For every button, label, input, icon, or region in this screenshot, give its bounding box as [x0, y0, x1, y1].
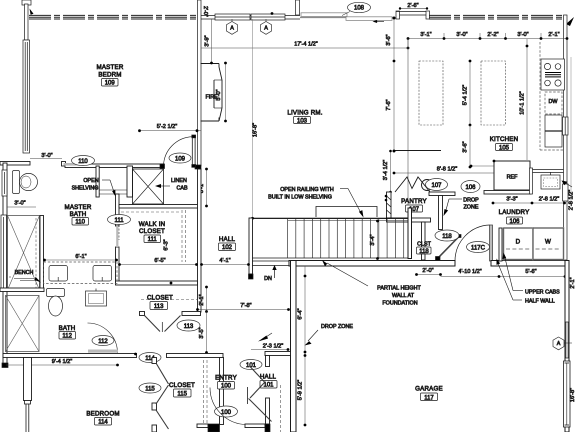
garage hall dims row: [417, 274, 441, 276]
svg-text:109: 109: [105, 81, 116, 87]
dim 3'-9" vertical left: [211, 19, 213, 63]
entry door arc: [210, 388, 247, 425]
svg-text:3'-0": 3'-0": [517, 32, 528, 38]
dim 3'-5": [206, 312, 208, 353]
svg-text:PARTIAL HEIGHT: PARTIAL HEIGHT: [377, 286, 421, 292]
dim 3'-6" / 7'-6" vertical kitchen-left: [393, 19, 395, 151]
kitchen west boundary line: [407, 39, 409, 211]
svg-text:CLOSET: CLOSET: [147, 295, 173, 302]
svg-text:16'-8": 16'-8": [253, 123, 259, 137]
bath112 toilet: [47, 289, 65, 297]
svg-text:OPEN RAILING WITH: OPEN RAILING WITH: [280, 187, 334, 193]
hall west wall: [198, 169, 202, 312]
svg-text:115: 115: [177, 392, 187, 398]
oval door tag 113: [177, 320, 200, 331]
svg-text:ZONE: ZONE: [464, 205, 479, 211]
slider arrow: [373, 20, 385, 23]
door 109 arc: [164, 137, 193, 166]
svg-text:DN: DN: [264, 276, 272, 282]
vanity sink 2: [93, 266, 112, 282]
svg-text:CAB: CAB: [176, 186, 187, 192]
entry south wall: [197, 424, 208, 428]
bath112 vanity: [86, 291, 107, 306]
svg-text:7'-8": 7'-8": [240, 303, 251, 309]
top-left wall marker box: [22, 0, 31, 5]
svg-text:113: 113: [154, 304, 164, 310]
door 117C leaf and arc: [490, 225, 493, 261]
svg-text:2'-0": 2'-0": [422, 268, 433, 274]
svg-text:DW: DW: [549, 99, 559, 105]
svg-text:112: 112: [98, 339, 108, 345]
svg-text:LINEN: LINEN: [171, 178, 187, 184]
closet 115 bifold doors: [156, 363, 169, 384]
svg-text:LIVING RM.: LIVING RM.: [287, 110, 322, 117]
svg-text:CLOSET: CLOSET: [139, 228, 165, 235]
dim 3'-4 1/2" pantry depth: [390, 151, 392, 192]
hexagon window marker A (2): [261, 22, 272, 35]
chimney stub above wall: [296, 0, 300, 15]
kitchen top dimension row: [408, 33, 567, 48]
hexagon window marker A: [227, 22, 238, 35]
top-right corner arrow: [566, 17, 574, 26]
drop zone T wall: [429, 192, 455, 196]
dim 17'-4 1/2" living room: [201, 47, 408, 49]
svg-text:102: 102: [222, 245, 233, 251]
svg-text:DROP: DROP: [463, 198, 479, 204]
svg-text:2'-1": 2'-1": [199, 294, 205, 305]
svg-text:105: 105: [499, 145, 510, 151]
master toilet: [13, 171, 20, 194]
laundry sink room walls: [530, 168, 533, 194]
svg-text:2'-3 1/2": 2'-3 1/2": [263, 344, 283, 350]
svg-text:5'-9 1/2": 5'-9 1/2": [298, 380, 304, 400]
svg-text:A: A: [264, 26, 268, 32]
closet 113 bifold doors: [145, 316, 161, 332]
closet 118: [422, 222, 426, 260]
dim 2'-1" closet: [206, 287, 208, 312]
dim 2'-6" door: [399, 8, 427, 10]
svg-text:REF: REF: [507, 175, 518, 181]
WIC south wall: [116, 281, 198, 285]
svg-text:6'-5": 6'-5": [154, 258, 165, 264]
laundry sink: [541, 175, 560, 189]
svg-text:BEDRM: BEDRM: [98, 72, 121, 79]
svg-text:2'-1": 2'-1": [548, 32, 559, 38]
oval door tag 107: [426, 179, 448, 191]
back door jamb walls near kitchen: [396, 11, 400, 19]
closet 115 left wall jambs: [152, 358, 157, 364]
svg-text:3'-4 1/2": 3'-4 1/2": [383, 160, 389, 180]
kitchen wall at stairs: [408, 208, 412, 259]
garage top wall segment left: [289, 261, 455, 267]
fireplace: [201, 64, 223, 122]
garage right window narrow: [566, 322, 569, 358]
left exterior wall (bath): [3, 163, 7, 366]
bath door arc: [88, 323, 118, 353]
svg-text:6'-1": 6'-1": [75, 254, 86, 260]
svg-text:HALF WALL: HALF WALL: [525, 299, 555, 305]
dim 9'-4 1/2": [5, 364, 118, 366]
svg-text:3'-4": 3'-4": [370, 234, 376, 245]
svg-text:5'-0": 5'-0": [216, 89, 222, 100]
svg-text:101: 101: [263, 383, 274, 389]
bath112 shower: [6, 296, 40, 352]
svg-text:16'-8": 16'-8": [570, 388, 576, 402]
master bath north wall: [0, 162, 30, 166]
kitchen island 2 (dashed): [481, 61, 506, 125]
closet 113 south wall stub: [182, 312, 201, 316]
svg-text:UPPER CABS: UPPER CABS: [525, 290, 560, 296]
svg-text:112: 112: [62, 334, 72, 340]
stair treads: [288, 219, 404, 258]
south wall of bath (bedroom divider): [3, 354, 137, 358]
hexagon marker A garage: [553, 337, 564, 350]
dim 6'-1" vanity: [44, 259, 117, 261]
right exterior wall: [564, 15, 568, 260]
hall101 north wall: [265, 352, 291, 356]
pantry top wall: [394, 150, 441, 152]
svg-text:110: 110: [78, 159, 88, 165]
window 2: [251, 14, 285, 20]
living room north wall with windows: [201, 15, 300, 17]
svg-text:3'-6": 3'-6": [463, 141, 469, 152]
drop zone leader: [449, 198, 462, 200]
oval door tag 118: [435, 230, 459, 241]
railing half wall hatched (left of pantry): [387, 192, 392, 218]
dim 16'-8" vertical: [252, 19, 254, 218]
garage right window wide: [564, 361, 571, 427]
svg-text:KITCHEN: KITCHEN: [490, 136, 519, 143]
junction dot: [271, 12, 274, 15]
laundry half wall: [499, 228, 502, 261]
svg-text:FOUNDATION: FOUNDATION: [382, 301, 417, 307]
oval door tag 111: [108, 215, 131, 225]
svg-text:3'-9": 3'-9": [205, 35, 211, 46]
svg-text:BEDROOM: BEDROOM: [86, 411, 119, 418]
svg-text:4'-1": 4'-1": [219, 258, 230, 264]
svg-text:3'-0": 3'-0": [41, 153, 52, 159]
svg-text:106: 106: [509, 219, 520, 225]
svg-text:3'-5": 3'-5": [199, 327, 205, 338]
oval door tag 109: [169, 153, 191, 163]
open shelving closet walls: [96, 166, 99, 197]
svg-text:DROP ZONE: DROP ZONE: [321, 324, 353, 330]
svg-text:100: 100: [221, 384, 232, 390]
svg-text:3'-6": 3'-6": [386, 34, 392, 45]
svg-text:5'-4 1/2": 5'-4 1/2": [463, 85, 469, 105]
svg-text:WALK IN: WALK IN: [139, 221, 166, 228]
svg-text:108: 108: [354, 6, 365, 12]
svg-text:5'-2 1/2": 5'-2 1/2": [157, 124, 177, 130]
garage left wall: [291, 261, 297, 432]
sink leader arrow: [564, 182, 572, 187]
svg-text:8'-8 1/2": 8'-8 1/2": [437, 167, 457, 173]
svg-text:6'-3": 6'-3": [164, 239, 170, 250]
svg-text:3'-1": 3'-1": [420, 32, 431, 38]
svg-text:118: 118: [419, 249, 429, 255]
oval door tag 117C: [467, 242, 490, 253]
svg-text:MASTER: MASTER: [97, 64, 124, 71]
dim 3'-0" door 110: [30, 158, 62, 160]
linen cabinet: [133, 169, 164, 204]
dim 7'-8": [197, 309, 289, 311]
svg-text:117: 117: [424, 395, 434, 401]
svg-text:6'-4": 6'-4": [298, 308, 304, 319]
kitchen island 1 (dashed): [419, 61, 443, 125]
svg-text:2'-8 1/2": 2'-8 1/2": [569, 190, 575, 210]
dim 5'-2 1/2": [139, 130, 201, 132]
pantry shelving zigzag: [395, 177, 430, 192]
shower wall right: [40, 216, 44, 291]
dishwasher DW: [545, 92, 562, 114]
stair bottom lines: [252, 257, 412, 259]
svg-text:2'-6": 2'-6": [407, 3, 418, 9]
svg-text:2'-1": 2'-1": [570, 277, 576, 288]
hall101 closet diagonal door: [249, 399, 272, 422]
master shower: [8, 216, 40, 291]
oval door tag 115: [139, 383, 161, 393]
svg-text:CLOSET: CLOSET: [169, 382, 195, 389]
built-in low shelving box: [316, 207, 377, 218]
right wall window (kitchen): [563, 117, 569, 135]
WIC north wall: [119, 205, 198, 209]
oval door tag 101: [240, 360, 262, 370]
porch dashed line: [280, 385, 282, 432]
svg-text:SHELVING: SHELVING: [72, 186, 99, 192]
svg-text:114: 114: [98, 420, 108, 426]
oval door tag 114: [139, 353, 161, 363]
washer box: [533, 228, 564, 260]
svg-text:HALL: HALL: [219, 236, 236, 243]
dim 4'-1" hall: [201, 264, 249, 266]
svg-text:4'-10 1/2": 4'-10 1/2": [458, 269, 482, 275]
dim 3'-4" stair width: [377, 220, 379, 259]
dim 6'-5": [119, 264, 197, 266]
svg-text:W: W: [545, 239, 551, 246]
wall ovens cabinet: [545, 115, 562, 147]
top insulated wall dashed band (master bedroom north): [29, 15, 196, 19]
pantry rod circle: [422, 180, 433, 191]
garage right wall: [565, 261, 569, 432]
dim 10'-1 1/2" vertical: [526, 39, 528, 160]
closet 118 diagonal door: [438, 237, 459, 259]
dim 3'-6" below island: [469, 125, 471, 167]
svg-text:118: 118: [442, 234, 452, 240]
outer extension line right: [570, 57, 572, 203]
closet 113: [141, 299, 197, 301]
hall101 west wall: [266, 356, 270, 367]
kitchen counter dashed edge: [539, 42, 541, 150]
svg-text:9'-4 1/2": 9'-4 1/2": [52, 359, 72, 365]
WIC rod dashed: [121, 211, 180, 213]
svg-text:LAUNDRY: LAUNDRY: [499, 209, 530, 216]
vanity sink 1: [49, 266, 68, 282]
svg-text:107: 107: [431, 183, 442, 189]
svg-text:3'-0": 3'-0": [456, 32, 467, 38]
oval door tag 112: [92, 336, 114, 346]
garage left dims: [304, 266, 306, 425]
svg-text:117C: 117C: [471, 245, 486, 251]
svg-text:17'-4 1/2": 17'-4 1/2": [294, 42, 318, 48]
svg-text:CLST: CLST: [417, 242, 431, 248]
wall between showers: [0, 288, 44, 292]
svg-text:BUILT IN LOW SHELVING: BUILT IN LOW SHELVING: [268, 195, 332, 201]
svg-text:BATH: BATH: [59, 325, 76, 332]
range / cooktop: [541, 59, 565, 90]
svg-text:BATH: BATH: [70, 211, 87, 218]
svg-text:PANTRY: PANTRY: [401, 198, 427, 205]
svg-text:106: 106: [465, 185, 476, 191]
svg-text:2'-8 1/2": 2'-8 1/2": [539, 197, 559, 203]
master bedroom west wall upper: [25, 4, 29, 40]
svg-text:MASTER: MASTER: [65, 204, 92, 211]
master bedroom west window: [23, 40, 30, 153]
master bedroom door 109: leaf: [192, 137, 195, 167]
arrow at top-left corner: [30, 9, 34, 15]
hall101 double doors: [250, 367, 265, 383]
dim 5'-4 1/2" between islands: [469, 61, 471, 125]
wall below REF: [484, 191, 531, 195]
svg-text:111: 111: [114, 218, 124, 224]
dim 3'-1" corridor: [206, 169, 208, 206]
svg-text:113: 113: [184, 324, 194, 330]
svg-text:110: 110: [75, 220, 85, 226]
svg-text:7'-6": 7'-6": [386, 99, 392, 110]
patio slider door 108: [300, 13, 394, 21]
master vanity counter dashed: [44, 262, 118, 284]
pocket door 110: [64, 163, 84, 166]
svg-text:100: 100: [221, 410, 232, 416]
window 1: [215, 14, 250, 20]
svg-text:10'-1 1/2": 10'-1 1/2": [520, 91, 526, 115]
kitchen north insulated wall dashed band: [429, 15, 563, 19]
svg-text:WALL AT: WALL AT: [392, 293, 415, 299]
svg-text:3'-0": 3'-0": [14, 201, 25, 207]
svg-text:A: A: [557, 341, 561, 347]
svg-text:BENCH: BENCH: [15, 270, 34, 276]
svg-text:111: 111: [148, 237, 158, 243]
dim 8'-8 1/2": [394, 172, 500, 174]
bedroom west wall: [24, 358, 32, 401]
svg-text:A: A: [230, 26, 234, 32]
svg-text:D: D: [516, 239, 521, 246]
laundry dims: [493, 202, 565, 204]
pantry bottom wall: [387, 218, 431, 222]
svg-text:OPEN: OPEN: [83, 178, 98, 184]
refrigerator: [471, 165, 494, 167]
garage top wall segment right: [491, 261, 567, 267]
WIC west wall with pocket door 111: [116, 194, 120, 226]
stair railing top line: [252, 217, 411, 219]
svg-text:109: 109: [175, 156, 186, 162]
wall: master bedroom east / hall west (x=197-201, y=0-169): [198, 0, 202, 166]
oval door tag 110: [72, 156, 95, 166]
svg-text:115: 115: [145, 386, 155, 392]
oval door tag 100: [215, 406, 238, 417]
dryer box: [504, 228, 534, 260]
right wall laundry door: [563, 184, 569, 201]
stair side wall left: [249, 218, 253, 274]
svg-text:2'-2": 2'-2": [487, 32, 498, 38]
oval door tag 106: [461, 181, 480, 193]
svg-text:ENTRY: ENTRY: [215, 375, 237, 382]
closet 115 rod dashed: [206, 360, 208, 430]
svg-text:GARAGE: GARAGE: [415, 386, 443, 393]
svg-text:3'-3": 3'-3": [506, 197, 517, 203]
oval door tag 108: [342, 12, 350, 16]
svg-text:103: 103: [297, 118, 308, 124]
svg-text:5'-6": 5'-6": [525, 269, 536, 275]
entry west wall: [220, 358, 224, 425]
